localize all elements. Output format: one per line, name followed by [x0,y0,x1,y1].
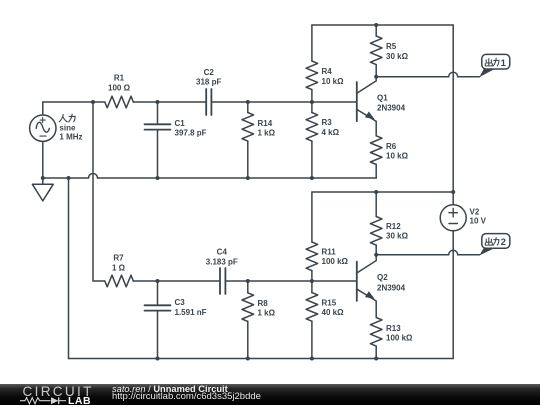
resistor R4 top lead [311,25,313,61]
ground symbol [32,178,53,201]
svg-text:R7: R7 [113,253,124,262]
wire: V2 vertical top section [452,25,454,205]
resistor R1 zigzag [105,96,134,108]
junction at (311.9,102) [310,100,314,104]
resistor R11 bottom lead [311,271,313,281]
resistor R14 zigzag [242,113,254,142]
junction at (311.9,281) [310,279,314,283]
capacitor C3 bottom lead [157,311,159,359]
voltage source V1 plus [40,118,45,123]
wire: top supply rail [312,24,453,26]
transistor Q1 emitter arrow [365,112,375,120]
capacitor C1 top lead [157,102,159,124]
label Q1 [377,94,406,113]
junction at (42.8,178) [41,176,45,180]
label R3 [322,118,340,137]
transistor Q1 emitter [357,110,376,136]
transistor Q2 collector [357,255,376,273]
svg-text:Q1: Q1 [377,94,388,103]
transistor Q2 emitter arrow [365,291,375,299]
junction at (311.9,358.5) [310,357,314,361]
resistor R4 bottom lead [311,90,313,102]
svg-text:R12: R12 [386,222,401,231]
resistor R8 zigzag [242,293,254,322]
flag 出力1 tail [479,69,494,78]
resistor R6 bottom lead to rail corner [375,164,377,178]
flag 出力1 box [482,54,510,69]
wire: V+ rail y=192 [312,191,453,193]
junction at (376.2,25) [374,23,378,27]
svg-text:100 Ω: 100 Ω [108,83,131,92]
voltage source V2 plus [449,209,457,217]
junction at (157.5,281) [156,279,160,283]
label R8 [258,299,276,318]
voltage source V1 bottom lead [42,141,44,178]
wire: left vertical x=68.5 down to bottom rail [68,178,70,359]
svg-text:1 kΩ: 1 kΩ [258,129,276,138]
junction at (247.8,281) [246,279,250,283]
wire: signal branch x=93 down to lower stage [93,102,105,281]
resistor R11 top lead from rail corner [311,192,313,242]
wire: C4 right to Q2 base [226,280,356,282]
svg-text:397.8 pF: 397.8 pF [175,129,207,138]
transistor Q1 base bar [356,82,358,121]
label C1 [175,119,207,138]
resistor R3 zigzag [306,113,318,142]
flag 出力2 tail [479,248,494,256]
resistor R14 top lead [247,102,249,113]
label C2 [196,68,221,87]
label C3 [175,298,207,317]
label C4 [206,248,238,267]
resistor R8 top lead [247,281,249,293]
junction at (247.8,358.5) [246,357,250,361]
capacitor C4 plates [220,268,225,294]
svg-text:40 kΩ: 40 kΩ [322,308,345,317]
svg-text:1: 1 [501,58,507,69]
logo LAB text [68,395,91,407]
junction at (157.5,102) [156,100,160,104]
resistor R13 zigzag [370,318,382,347]
svg-text:R11: R11 [322,247,337,256]
resistor R3 top lead [311,102,313,113]
resistor R5 zigzag [370,36,382,65]
svg-text:R3: R3 [322,118,333,127]
resistor R7 zigzag [105,275,134,287]
wire: R7 right to C4 left plate [133,280,219,282]
svg-text:100 kΩ: 100 kΩ [386,334,413,343]
svg-text:1.591 nF: 1.591 nF [175,308,207,317]
svg-text:C3: C3 [175,298,186,307]
label R13 [386,324,413,343]
capacitor C3 plates [145,305,171,310]
svg-text:30 kΩ: 30 kΩ [386,232,409,241]
svg-text:10 kΩ: 10 kΩ [386,152,409,161]
resistor R4 zigzag [306,61,318,90]
flag 出力2 box [482,234,510,249]
label V1 name 入力 glyphs [59,114,75,122]
wire: output2 from collector to flag, hop over V2 wire [376,250,479,255]
resistor R12 bottom lead [375,245,377,255]
footer url line [112,391,261,402]
svg-text:R13: R13 [386,324,401,333]
svg-text:1 kΩ: 1 kΩ [258,309,276,318]
voltage source V1 minus [40,135,46,137]
label R15 [322,298,345,317]
svg-text:3.183 pF: 3.183 pF [206,257,238,266]
CircuitLab logo text [23,384,94,399]
resistor R3 bottom lead [311,141,313,178]
junction collector node (376.2,254.8) [374,253,378,257]
label R14 [258,119,276,138]
svg-text:R5: R5 [386,42,397,51]
svg-text:2N3904: 2N3904 [377,103,406,112]
resistor R15 bottom lead [311,321,313,358]
label R12 [386,222,409,241]
voltage source V2 minus [449,223,457,225]
svg-text:Q2: Q2 [377,273,388,282]
svg-text:30 kΩ: 30 kΩ [386,52,409,61]
junction at (157.5,178) [156,176,160,180]
label R7 [112,253,126,272]
transistor Q2 emitter [357,289,376,317]
label R11 [322,247,349,266]
label R6 [386,142,409,161]
wire: source top lead up and right to R1 [43,102,105,115]
capacitor C1 plates [145,124,171,129]
wire: output1 from collector to flag, hop over V2 wire [376,72,479,77]
resistor R15 top lead [311,281,313,293]
footer bar [0,384,540,405]
resistor R5 bottom lead [375,65,377,77]
node junction at (93,102) [91,100,95,104]
svg-text:C2: C2 [204,68,215,77]
resistor R6 zigzag [370,136,382,165]
svg-text:1 MHz: 1 MHz [59,133,82,142]
capacitor C1 bottom lead [157,130,159,178]
junction at (247.8,178) [246,176,250,180]
junction collector node (376.2,77.2) [374,75,378,79]
junction at (68.5,178) [67,176,71,180]
junction at (453.2,192) [451,190,455,194]
svg-text:100 kΩ: 100 kΩ [322,257,349,266]
flag 出力1 digit [501,58,507,69]
label V1 入力 sine 1 MHz [59,124,82,142]
resistor R15 zigzag [306,293,318,322]
svg-text:R14: R14 [258,119,273,128]
resistor R11 zigzag [306,242,318,271]
svg-text:V2: V2 [470,207,480,216]
flag 出力2 text glyphs [485,238,499,246]
resistor R8 bottom lead [247,321,249,358]
svg-text:1 Ω: 1 Ω [112,264,126,273]
resistor R5 top lead [375,25,377,36]
svg-text:10 kΩ: 10 kΩ [322,77,345,86]
footer title line [112,384,228,394]
label R1 [108,74,131,93]
voltage source V1 circle [30,115,56,141]
wire: C2 right to Q1 base [212,101,356,103]
junction at (376.2,192) [374,190,378,194]
svg-text:4 kΩ: 4 kΩ [322,128,340,137]
transistor Q2 base bar [356,262,358,301]
label V2 [470,207,487,225]
wire: bottom rail y=358.5 [69,358,454,360]
voltage source V2 circle [440,205,466,231]
label R4 [322,67,345,86]
junction at (311.9,178) [310,176,314,180]
capacitor C2 plates [206,89,211,115]
voltage source V1 sine [36,122,49,132]
svg-text:R8: R8 [258,299,269,308]
svg-text:R6: R6 [386,142,397,151]
wire: V2 bottom lead to bottom rail [452,231,454,359]
junction at (157.5,358.5) [156,357,160,361]
transistor Q1 collector [357,77,376,93]
svg-text:318 pF: 318 pF [196,77,221,86]
svg-text:10 V: 10 V [470,216,487,225]
label R5 [386,42,409,61]
flag 出力2 digit [501,237,506,248]
svg-text:C1: C1 [175,119,186,128]
svg-text:2N3904: 2N3904 [377,284,406,293]
resistor R12 zigzag [370,217,382,246]
svg-text:R15: R15 [322,298,337,307]
svg-text:sine: sine [59,124,76,133]
svg-text:2: 2 [501,237,506,248]
wire: ground rail y=178 with hop over x=93 [43,174,376,179]
svg-text:C4: C4 [217,248,228,257]
junction at (247.8,102) [246,100,250,104]
wire: R1 right to C2 left plate [133,101,205,103]
svg-text:R4: R4 [322,67,333,76]
svg-text:R1: R1 [114,74,125,83]
flag 出力1 text glyphs [485,58,499,66]
logo wire + resistor + diode graphic [20,396,66,406]
resistor R14 bottom lead [247,141,249,178]
label Q2 [377,273,406,293]
junction at (376.2,358.5) [374,357,378,361]
resistor R13 bottom lead [375,346,377,358]
capacitor C3 top lead [157,281,159,305]
resistor R12 top lead [375,192,377,217]
